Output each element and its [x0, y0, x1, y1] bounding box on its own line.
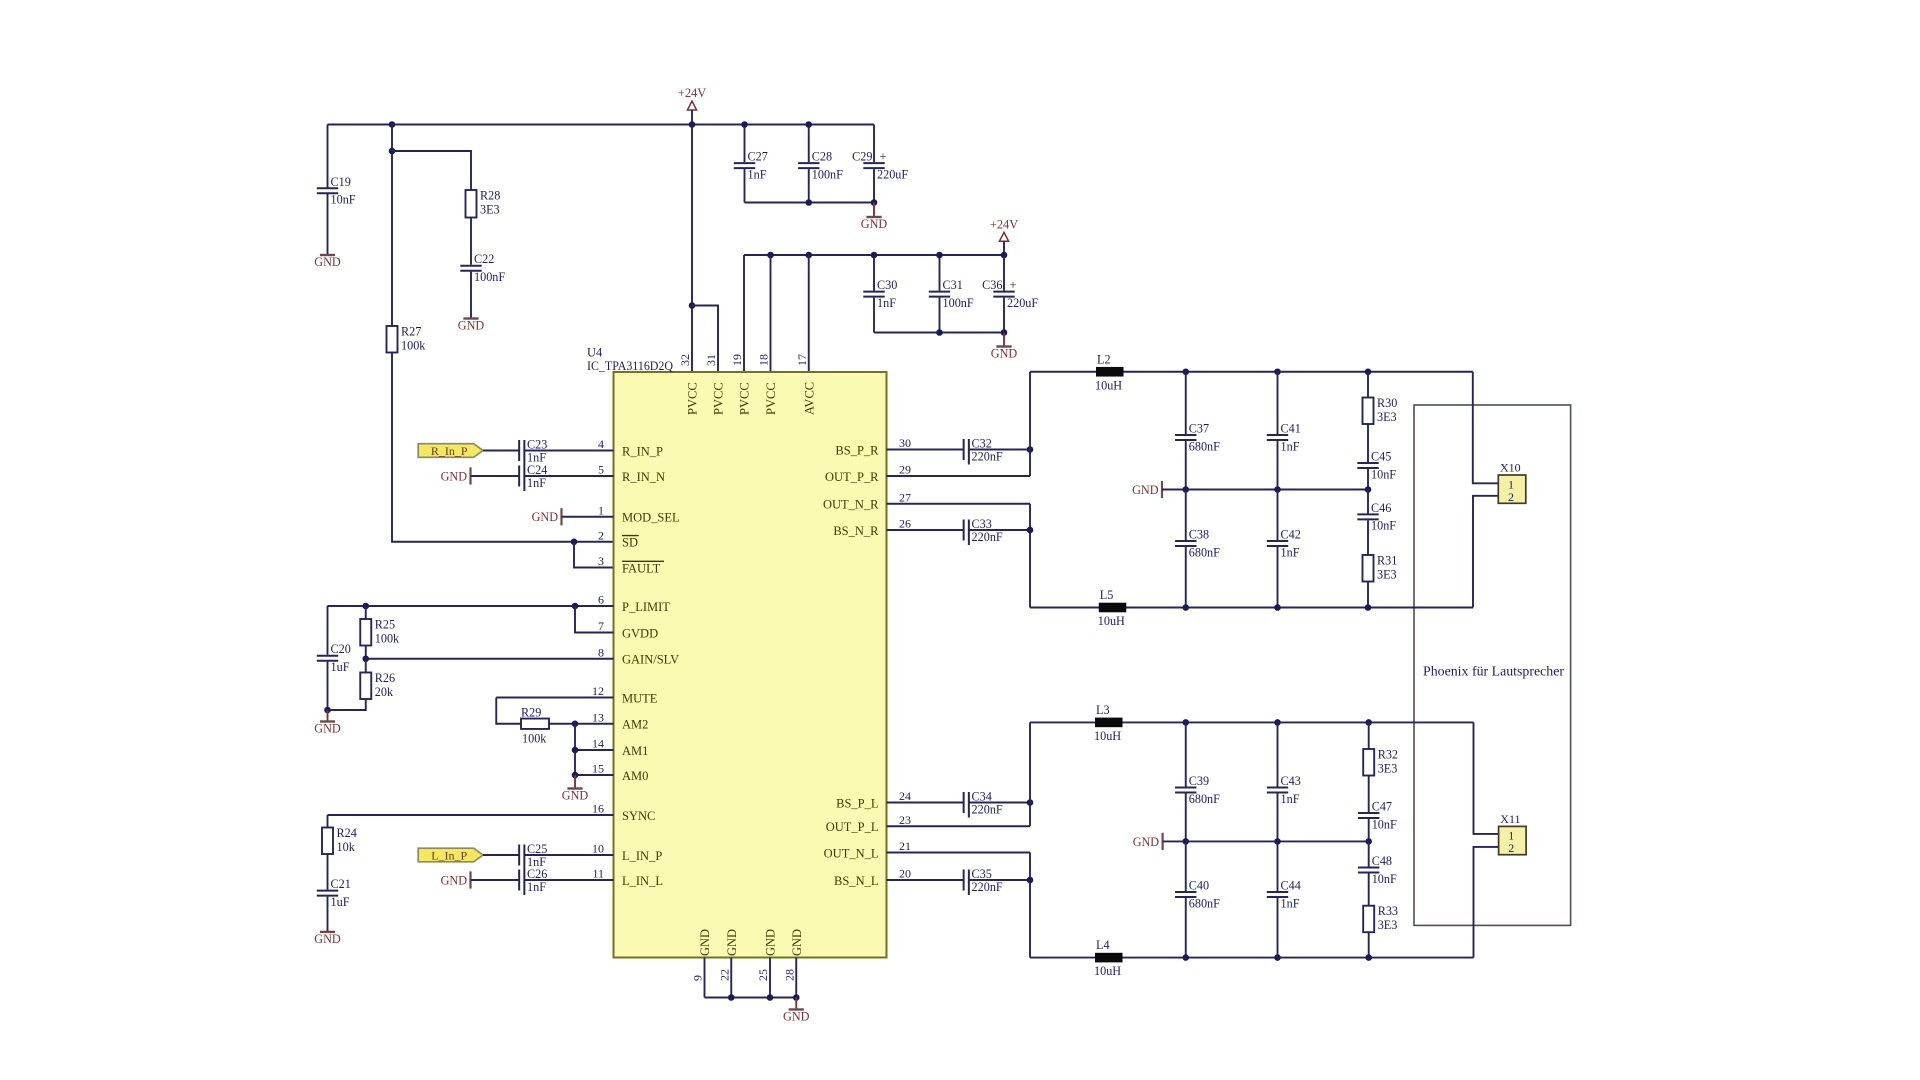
- svg-text:12: 12: [592, 684, 604, 698]
- svg-text:10k: 10k: [337, 840, 356, 854]
- svg-text:GND: GND: [458, 319, 485, 333]
- svg-text:10nF: 10nF: [1372, 872, 1397, 886]
- svg-text:R29: R29: [521, 705, 541, 719]
- svg-text:15: 15: [592, 762, 604, 776]
- svg-text:10uH: 10uH: [1094, 964, 1121, 978]
- svg-text:+: +: [880, 150, 887, 164]
- svg-text:100k: 100k: [522, 731, 547, 745]
- svg-text:C39: C39: [1189, 774, 1209, 788]
- svg-text:1nF: 1nF: [1281, 896, 1300, 910]
- svg-text:R27: R27: [401, 325, 421, 339]
- svg-text:C37: C37: [1189, 422, 1209, 436]
- svg-text:1nF: 1nF: [1281, 792, 1300, 806]
- svg-text:PVCC: PVCC: [738, 382, 752, 415]
- svg-text:PVCC: PVCC: [712, 382, 726, 415]
- svg-text:32: 32: [678, 354, 692, 366]
- svg-text:MOD_SEL: MOD_SEL: [622, 511, 680, 525]
- svg-text:GND: GND: [1132, 483, 1159, 497]
- svg-text:AVCC: AVCC: [802, 382, 816, 415]
- svg-text:GND: GND: [314, 255, 341, 269]
- svg-text:SD: SD: [622, 536, 638, 550]
- svg-text:L_IN_P: L_IN_P: [622, 849, 662, 863]
- svg-text:IC_TPA3116D2Q: IC_TPA3116D2Q: [587, 359, 673, 373]
- svg-text:GND: GND: [764, 929, 778, 956]
- svg-text:14: 14: [592, 737, 604, 751]
- svg-text:AM2: AM2: [622, 718, 648, 732]
- svg-text:20k: 20k: [375, 685, 394, 699]
- svg-text:R_In_P: R_In_P: [431, 444, 468, 458]
- svg-text:C43: C43: [1281, 774, 1301, 788]
- svg-text:680nF: 680nF: [1189, 545, 1220, 559]
- svg-text:GND: GND: [532, 510, 559, 524]
- svg-text:1uF: 1uF: [331, 660, 350, 674]
- svg-text:BS_N_R: BS_N_R: [833, 524, 879, 538]
- svg-text:11: 11: [592, 867, 604, 881]
- svg-text:X11: X11: [1500, 812, 1520, 826]
- svg-text:GND: GND: [783, 1010, 810, 1024]
- svg-text:L4: L4: [1096, 938, 1110, 952]
- svg-text:L2: L2: [1097, 352, 1111, 366]
- svg-text:PVCC: PVCC: [686, 382, 700, 415]
- svg-text:23: 23: [899, 813, 911, 827]
- svg-text:16: 16: [592, 802, 604, 816]
- svg-text:6: 6: [598, 593, 604, 607]
- svg-text:220uF: 220uF: [877, 167, 908, 181]
- svg-text:P_LIMIT: P_LIMIT: [622, 600, 670, 614]
- svg-text:220nF: 220nF: [972, 530, 1003, 544]
- svg-text:OUT_N_R: OUT_N_R: [823, 498, 879, 512]
- svg-text:3E3: 3E3: [1378, 918, 1398, 932]
- svg-text:C31: C31: [943, 278, 963, 292]
- svg-text:27: 27: [899, 490, 911, 504]
- svg-text:3: 3: [598, 554, 604, 568]
- svg-text:+24V: +24V: [990, 217, 1018, 231]
- svg-text:MUTE: MUTE: [622, 691, 658, 705]
- svg-text:1nF: 1nF: [527, 476, 546, 490]
- svg-text:L5: L5: [1100, 588, 1114, 602]
- svg-text:10uH: 10uH: [1094, 729, 1121, 743]
- svg-text:L_IN_L: L_IN_L: [622, 874, 663, 888]
- svg-text:SYNC: SYNC: [622, 809, 655, 823]
- svg-text:17: 17: [795, 354, 809, 366]
- svg-text:3E3: 3E3: [480, 203, 500, 217]
- svg-text:18: 18: [757, 354, 771, 366]
- svg-text:GND: GND: [441, 469, 468, 483]
- svg-text:OUT_P_R: OUT_P_R: [825, 470, 879, 484]
- svg-text:GVDD: GVDD: [622, 626, 658, 640]
- svg-text:GND: GND: [991, 347, 1018, 361]
- svg-text:220uF: 220uF: [1007, 296, 1038, 310]
- svg-text:680nF: 680nF: [1189, 896, 1220, 910]
- svg-text:20: 20: [899, 867, 911, 881]
- svg-text:R26: R26: [375, 671, 395, 685]
- svg-text:100nF: 100nF: [943, 296, 974, 310]
- svg-text:C36: C36: [982, 278, 1002, 292]
- svg-text:2: 2: [1508, 841, 1514, 855]
- svg-text:GND: GND: [562, 789, 589, 803]
- svg-text:C46: C46: [1371, 501, 1391, 515]
- svg-text:GND: GND: [314, 722, 341, 736]
- svg-text:28: 28: [782, 969, 796, 981]
- svg-text:1nF: 1nF: [1281, 545, 1300, 559]
- svg-text:10uH: 10uH: [1098, 614, 1125, 628]
- svg-text:R_IN_P: R_IN_P: [622, 444, 663, 458]
- svg-text:C22: C22: [474, 252, 494, 266]
- svg-text:R_IN_N: R_IN_N: [622, 470, 665, 484]
- svg-text:R25: R25: [375, 618, 395, 632]
- svg-text:GND: GND: [314, 932, 341, 946]
- svg-text:R32: R32: [1378, 748, 1398, 762]
- svg-text:1nF: 1nF: [748, 167, 767, 181]
- svg-text:1nF: 1nF: [1281, 439, 1300, 453]
- svg-text:BS_P_L: BS_P_L: [836, 796, 878, 810]
- svg-text:+24V: +24V: [678, 86, 706, 100]
- svg-text:10nF: 10nF: [331, 193, 356, 207]
- svg-text:GND: GND: [861, 217, 888, 231]
- svg-text:9: 9: [691, 975, 705, 981]
- svg-text:24: 24: [899, 789, 911, 803]
- svg-text:100k: 100k: [375, 632, 400, 646]
- svg-text:680nF: 680nF: [1189, 792, 1220, 806]
- svg-text:GND: GND: [790, 929, 804, 956]
- svg-text:R28: R28: [480, 189, 500, 203]
- svg-text:OUT_P_L: OUT_P_L: [826, 820, 879, 834]
- svg-text:R33: R33: [1378, 904, 1398, 918]
- svg-text:10nF: 10nF: [1371, 519, 1396, 533]
- svg-text:25: 25: [756, 969, 770, 981]
- svg-text:AM1: AM1: [622, 744, 648, 758]
- svg-text:1nF: 1nF: [527, 880, 546, 894]
- svg-text:31: 31: [704, 354, 718, 366]
- svg-text:C41: C41: [1281, 422, 1301, 436]
- svg-text:1uF: 1uF: [331, 895, 350, 909]
- svg-text:L_In_P: L_In_P: [431, 848, 467, 862]
- svg-text:220nF: 220nF: [972, 802, 1003, 816]
- svg-text:C27: C27: [748, 150, 768, 164]
- svg-text:100nF: 100nF: [474, 270, 505, 284]
- svg-text:220nF: 220nF: [972, 880, 1003, 894]
- svg-text:26: 26: [899, 517, 911, 531]
- svg-text:7: 7: [598, 619, 604, 633]
- svg-text:C47: C47: [1372, 800, 1392, 814]
- svg-text:1nF: 1nF: [877, 296, 896, 310]
- svg-text:C21: C21: [331, 877, 351, 891]
- svg-text:3E3: 3E3: [1377, 568, 1397, 582]
- svg-text:GND: GND: [1133, 835, 1160, 849]
- svg-text:FAULT: FAULT: [622, 561, 661, 575]
- svg-text:C48: C48: [1372, 854, 1392, 868]
- svg-text:R24: R24: [337, 826, 357, 840]
- svg-text:C19: C19: [331, 175, 351, 189]
- svg-text:C30: C30: [877, 278, 897, 292]
- svg-text:100nF: 100nF: [812, 167, 843, 181]
- svg-text:19: 19: [730, 354, 744, 366]
- svg-text:AM0: AM0: [622, 769, 648, 783]
- svg-text:29: 29: [899, 463, 911, 477]
- svg-text:5: 5: [598, 463, 604, 477]
- svg-text:C44: C44: [1281, 879, 1301, 893]
- svg-text:10uH: 10uH: [1095, 378, 1122, 392]
- svg-text:10nF: 10nF: [1372, 817, 1397, 831]
- svg-text:BS_N_L: BS_N_L: [834, 874, 878, 888]
- svg-text:C40: C40: [1189, 879, 1209, 893]
- svg-text:GAIN/SLV: GAIN/SLV: [622, 653, 679, 667]
- svg-text:GND: GND: [441, 873, 468, 887]
- svg-text:3E3: 3E3: [1377, 410, 1397, 424]
- svg-text:13: 13: [592, 710, 604, 724]
- svg-text:3E3: 3E3: [1378, 762, 1398, 776]
- svg-text:C20: C20: [331, 642, 351, 656]
- svg-text:8: 8: [598, 645, 604, 659]
- svg-text:220nF: 220nF: [972, 449, 1003, 463]
- svg-text:PVCC: PVCC: [764, 382, 778, 415]
- svg-text:100k: 100k: [401, 339, 426, 353]
- svg-text:21: 21: [899, 839, 911, 853]
- svg-text:GND: GND: [725, 929, 739, 956]
- svg-text:4: 4: [598, 437, 604, 451]
- svg-text:OUT_N_L: OUT_N_L: [824, 846, 879, 860]
- svg-text:+: +: [1010, 278, 1017, 292]
- svg-text:22: 22: [717, 969, 731, 981]
- svg-text:680nF: 680nF: [1189, 439, 1220, 453]
- svg-text:R31: R31: [1377, 554, 1397, 568]
- svg-text:BS_P_R: BS_P_R: [835, 443, 879, 457]
- svg-text:C29: C29: [852, 150, 872, 164]
- svg-text:C38: C38: [1189, 528, 1209, 542]
- svg-text:C42: C42: [1281, 528, 1301, 542]
- svg-text:X10: X10: [1500, 461, 1521, 475]
- svg-text:2: 2: [1508, 490, 1514, 504]
- svg-text:1: 1: [598, 503, 604, 517]
- svg-text:10nF: 10nF: [1371, 467, 1396, 481]
- svg-text:30: 30: [899, 436, 911, 450]
- svg-text:L3: L3: [1096, 703, 1110, 717]
- svg-text:GND: GND: [698, 929, 712, 956]
- svg-text:C28: C28: [812, 150, 832, 164]
- svg-text:10: 10: [592, 842, 604, 856]
- svg-text:C45: C45: [1371, 450, 1391, 464]
- svg-text:U4: U4: [587, 346, 602, 360]
- svg-text:R30: R30: [1377, 396, 1397, 410]
- svg-text:Phoenix für Lautsprecher: Phoenix für Lautsprecher: [1423, 664, 1565, 679]
- svg-text:2: 2: [598, 528, 604, 542]
